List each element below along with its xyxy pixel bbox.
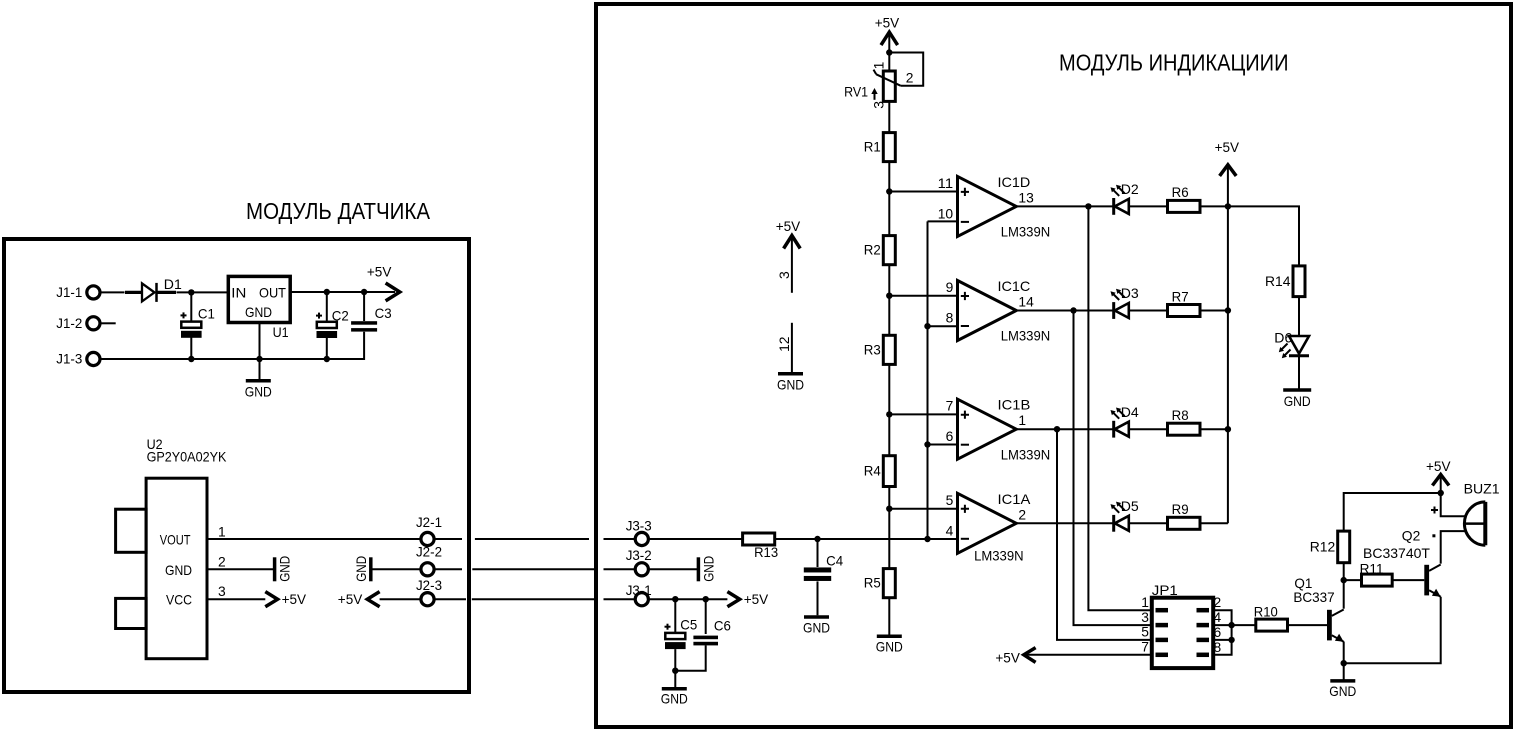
wire R6 to +5V rail (1200, 205, 1228, 207)
wire to C5 (674, 599, 676, 633)
svg-text:2: 2 (1018, 506, 1026, 522)
junction RV1 pin2 loop (886, 49, 892, 55)
junction buzzer +5V node (1438, 490, 1444, 496)
wire D1 to U1 IN (177, 291, 229, 293)
buzzer BUZ1 (1464, 480, 1500, 545)
junction D1/C1 node (188, 289, 194, 295)
capacitor C5 (electrolytic) (665, 617, 698, 650)
+5V symbol ladder top (875, 15, 900, 45)
junction tie/pin4 (1228, 622, 1234, 628)
svg-text:LM339N: LM339N (1001, 446, 1050, 462)
wire D2 row left (1016, 205, 1113, 207)
wire Q2 emitter to Q1 emitter (1344, 597, 1441, 664)
wire JP1 pins 4,6 tie (1213, 625, 1231, 640)
connector J1-1 (56, 284, 100, 300)
sensor module frame (4, 239, 469, 692)
wire U2 VOUT to J2-1 (207, 538, 420, 540)
svg-text:R10: R10 (1254, 604, 1278, 620)
ground U1 (245, 381, 272, 400)
svg-text:МОДУЛЬ ДАТЧИКА: МОДУЛЬ ДАТЧИКА (246, 198, 431, 224)
wire R11 to Q2 base (1392, 579, 1424, 581)
junction rail/C1 (188, 356, 194, 362)
svg-text:GND: GND (700, 556, 716, 582)
wire IC1C out to JP1 pin3 (1074, 311, 1152, 626)
svg-text:C4: C4 (826, 553, 843, 569)
svg-text:IC1D: IC1D (998, 174, 1031, 190)
buzzer - polarity mark (1432, 534, 1435, 537)
ground J3-2 (698, 556, 716, 582)
svg-text:R6: R6 (1172, 184, 1189, 200)
svg-text:Q2: Q2 (1402, 527, 1421, 543)
svg-text:GND: GND (661, 691, 688, 707)
wire to C4 (817, 539, 819, 567)
svg-text:GND: GND (1284, 393, 1311, 409)
potentiometer RV1 (844, 61, 914, 108)
svg-text:6: 6 (1214, 624, 1222, 640)
svg-text:C2: C2 (332, 307, 349, 323)
svg-text:GND: GND (165, 562, 192, 578)
connector J1-2 (56, 315, 100, 331)
svg-text:6: 6 (946, 428, 954, 444)
svg-text:2: 2 (1214, 594, 1222, 610)
resistor R12 (1310, 531, 1350, 563)
svg-text:J1-2: J1-2 (56, 315, 82, 331)
junction R8/rail (1225, 426, 1231, 432)
junction R2/R3 tap (886, 293, 892, 299)
svg-text:GND: GND (277, 556, 293, 582)
capacitor C1 (electrolytic) (181, 305, 216, 338)
svg-text:BC337: BC337 (1293, 589, 1335, 605)
junction C6 tap (703, 596, 709, 602)
svg-text:5: 5 (1141, 624, 1149, 640)
connector J3-1 (626, 582, 652, 606)
wire R8 to +5V rail (1200, 428, 1228, 430)
ground U2 pin2 (275, 556, 293, 582)
svg-text:+5V: +5V (1426, 458, 1451, 474)
resistor R1 (864, 133, 896, 162)
svg-text:GND: GND (803, 619, 830, 635)
svg-text:GP2Y0A02YK: GP2Y0A02YK (147, 449, 227, 465)
JP1 pin 4 stub (1197, 623, 1210, 628)
svg-text:R5: R5 (864, 575, 881, 591)
ground ladder (876, 636, 903, 654)
wire OUT to C2 (326, 292, 328, 322)
junction C5 tap (672, 596, 678, 602)
JP1 pin 1 stub (1156, 608, 1169, 613)
svg-text:+5V: +5V (995, 650, 1020, 666)
+5V symbol LM339 pin 3 (776, 218, 801, 249)
resistor R10 (1254, 604, 1288, 632)
junction R6/rail (1225, 203, 1231, 209)
connector J2-3 (416, 577, 442, 606)
svg-text:JP1: JP1 (1152, 582, 1178, 598)
+5V symbol buzzer (1426, 458, 1451, 485)
wire ground rail (100, 332, 364, 359)
wire tap to pin 11 (889, 191, 957, 193)
svg-text:4: 4 (946, 522, 954, 538)
junction Q1 col/R12/R11 (1341, 577, 1347, 583)
wire R13 to IC1A pin 4 (775, 538, 958, 540)
op-amp IC1C (958, 278, 1051, 344)
svg-text:GND: GND (876, 638, 903, 654)
wire J2-2 to ground (372, 568, 421, 570)
svg-text:RV1: RV1 (844, 84, 868, 100)
svg-text:IC1B: IC1B (998, 397, 1031, 413)
wire U1 GND pin (259, 323, 261, 380)
svg-text:J2-1: J2-1 (416, 514, 442, 530)
svg-text:14: 14 (1018, 294, 1034, 310)
resistor R14 (1265, 266, 1305, 297)
ground Q1 (1329, 681, 1356, 699)
wire R2 to R3 (888, 265, 890, 336)
wire Q1 emitter to ground (1343, 663, 1345, 680)
wire R9 to +5V rail (1200, 522, 1228, 524)
transistor Q1 BC337 (1327, 610, 1344, 642)
svg-text:R14: R14 (1265, 273, 1291, 289)
LED D2 (D2) (1111, 181, 1139, 215)
wire tap to pin 7 (889, 413, 957, 415)
wire D5 to R9 (1129, 522, 1168, 524)
wire D4 row left (1016, 428, 1113, 430)
svg-text:C1: C1 (198, 305, 215, 321)
wire IC1B out to JP1 pin5 (1057, 429, 1152, 640)
connector J3-3 (626, 518, 652, 546)
svg-text:1: 1 (1018, 412, 1026, 428)
junction R4/R5 tap (886, 506, 892, 512)
ground J2-2 (353, 556, 371, 582)
svg-text:R11: R11 (1360, 560, 1384, 576)
wire C1 to ground rail (190, 338, 192, 360)
svg-text:GND: GND (245, 304, 272, 320)
JP1 pin 3 stub (1156, 623, 1169, 628)
wire OUT to C3 (363, 292, 365, 321)
wire rail to R14 (1228, 206, 1299, 266)
buzzer + polarity mark (1431, 507, 1438, 514)
wire Q1 emitter (1343, 642, 1345, 664)
JP1 pin 8 stub (1197, 653, 1210, 658)
wire J3-3 to R13 (648, 538, 742, 540)
wire D5 row left (1016, 522, 1113, 524)
wire tie to R10 (1232, 624, 1256, 626)
wire minus input bus (927, 221, 929, 539)
LED D3 (D3) (1111, 285, 1139, 319)
+5V symbol U2 VCC (265, 591, 306, 607)
JP1 pin 7 stub (1156, 653, 1169, 658)
junction C2 tap (324, 289, 330, 295)
wire RV1 to R1 (888, 101, 890, 132)
junction rail/U1 GND (256, 356, 262, 362)
wire D3 to R7 (1129, 310, 1168, 312)
wire tap to pin 9 (889, 295, 957, 297)
svg-text:IC1C: IC1C (998, 278, 1031, 294)
LED D4 (D4) (1111, 404, 1139, 438)
svg-text:J3-3: J3-3 (626, 518, 652, 534)
svg-text:R12: R12 (1310, 538, 1336, 554)
wire +5V to buzzer + (1441, 493, 1465, 516)
svg-text:+5V: +5V (776, 218, 801, 234)
wire C2 to rail (326, 338, 328, 359)
junction bus/pin8 (924, 323, 930, 329)
wire arrow to RV1 (888, 35, 890, 71)
svg-text:МОДУЛЬ ИНДИКАЦИИИ: МОДУЛЬ ИНДИКАЦИИИ (1059, 50, 1289, 76)
JP1 pin 5 stub (1156, 638, 1169, 643)
wire C5 to ground (674, 649, 676, 689)
svg-text:D3: D3 (1121, 285, 1139, 301)
wire C6 to node (675, 645, 705, 670)
resistor R2 (864, 236, 896, 265)
op-amp IC1A (958, 491, 1031, 564)
wire J2-1 to J3-3 (434, 538, 635, 540)
wire R12 to +5V node (1344, 493, 1441, 531)
svg-text:GND: GND (245, 383, 272, 399)
junction R3/R4 tap (886, 411, 892, 417)
svg-text:1: 1 (218, 523, 226, 539)
JP1 pin 6 stub (1197, 638, 1210, 643)
transistor Q2 BC33740T (1424, 565, 1440, 597)
svg-text:J1-3: J1-3 (56, 351, 82, 367)
+5V arrow (U1 output) (367, 263, 400, 301)
svg-text:J3-1: J3-1 (626, 582, 652, 598)
wire bus to pin 6 (928, 444, 958, 446)
wire J3-2 to ground (648, 568, 697, 570)
wire R3 to R4 (888, 364, 890, 455)
wire J2-3 to +5V (380, 598, 421, 600)
regulator U1 (228, 276, 290, 340)
junction bus/pin6 (924, 441, 930, 447)
sensor U2 GP2Y0A02YK (116, 436, 227, 659)
ground C5/C6 (661, 689, 688, 707)
svg-text:LM339N: LM339N (1001, 328, 1050, 344)
svg-text:3: 3 (218, 583, 226, 599)
resistor R6 (1168, 184, 1201, 212)
svg-text:3: 3 (871, 101, 887, 109)
op-amp IC1D (958, 174, 1051, 240)
svg-text:+5V: +5V (338, 591, 363, 607)
wire +5V rail vertical (1227, 168, 1229, 524)
resistor R13 (743, 533, 779, 560)
junction D4 row bus tap (1054, 426, 1060, 432)
wire JP1 pins 2-8 tie (1213, 610, 1231, 655)
wire LM339 pin 12 (791, 323, 793, 373)
junction D3 row bus tap (1070, 307, 1076, 313)
JP1 pin 2 stub (1197, 608, 1210, 613)
svg-text:C3: C3 (375, 305, 392, 321)
svg-text:2: 2 (218, 554, 226, 570)
svg-text:4: 4 (1214, 609, 1222, 625)
connector J1-3 (56, 351, 100, 367)
svg-text:7: 7 (946, 398, 954, 414)
svg-text:U1: U1 (273, 324, 289, 340)
svg-text:3: 3 (776, 271, 792, 279)
svg-text:8: 8 (1214, 639, 1222, 655)
junction R1/R2 tap (886, 188, 892, 194)
svg-text:5: 5 (946, 492, 954, 508)
svg-text:IC1A: IC1A (998, 491, 1031, 507)
svg-text:R8: R8 (1172, 407, 1189, 423)
wire D4 to R8 (1129, 428, 1168, 430)
junction D2 row bus tap (1085, 203, 1091, 209)
wire bus to pin 10 (928, 220, 958, 222)
wire J2-3 to J3-1 (434, 598, 635, 600)
svg-text:BUZ1: BUZ1 (1464, 480, 1500, 496)
svg-text:+5V: +5V (744, 591, 769, 607)
LED D6 (1274, 330, 1309, 359)
junction bus/signal (924, 536, 930, 542)
junction C3 tap (361, 289, 367, 295)
wire bus to pin 8 (928, 325, 958, 327)
svg-text:VOUT: VOUT (160, 532, 191, 548)
resistor R5 (864, 569, 896, 598)
svg-text:IN: IN (231, 285, 246, 301)
capacitor C3 (351, 305, 392, 332)
svg-text:2: 2 (906, 70, 914, 86)
+5V symbol LED rail (1215, 139, 1240, 176)
svg-text:GND: GND (777, 377, 804, 393)
ground LM339 pin 12 (777, 374, 804, 393)
junction tie/pin6 (1228, 637, 1234, 643)
ground D6 (1283, 390, 1311, 409)
svg-text:J3-2: J3-2 (626, 547, 652, 563)
svg-text:R1: R1 (864, 139, 881, 155)
svg-text:C6: C6 (714, 617, 731, 633)
svg-text:D4: D4 (1121, 404, 1139, 420)
junction Q1 emitter node (1341, 660, 1347, 666)
capacitor C4 (804, 553, 843, 581)
wire R1 to R2 (888, 162, 890, 236)
svg-text:D1: D1 (164, 276, 182, 292)
svg-text:3: 3 (1141, 609, 1149, 625)
svg-text:10: 10 (938, 205, 954, 221)
svg-text:9: 9 (946, 279, 954, 295)
wire tap to pin 5 (889, 508, 957, 510)
junction rail/C2 (324, 356, 330, 362)
wire RV1 pin 2 loop (889, 53, 923, 86)
resistor R3 (864, 335, 896, 364)
wire Q1 collector (1343, 580, 1345, 609)
junction R7/rail (1225, 307, 1231, 313)
resistor R9 (1168, 501, 1201, 529)
wire U1 OUT to +5V (290, 291, 395, 293)
wire Q1 col to R12 (1343, 563, 1345, 580)
connector J3-2 (626, 547, 652, 576)
svg-text:LM339N: LM339N (974, 548, 1023, 564)
svg-text:+5V: +5V (875, 15, 900, 31)
svg-text:R13: R13 (754, 544, 778, 560)
wire +5V to JP1 pin7 (1024, 654, 1152, 656)
+5V symbol JP1 pin7 (995, 648, 1035, 666)
wire IC1D out to JP1 pin1 (1088, 206, 1151, 610)
svg-text:D5: D5 (1121, 498, 1139, 514)
wire J1-2 stub (100, 322, 116, 324)
ground C4 (803, 617, 830, 635)
svg-text:J2-2: J2-2 (416, 543, 442, 559)
wire Q1 col to R11 (1344, 579, 1362, 581)
wire J3-1 to +5V (648, 598, 727, 600)
connector J2 (416, 514, 442, 546)
svg-text:+5V: +5V (282, 591, 307, 607)
svg-text:BC33740T: BC33740T (1363, 545, 1430, 561)
junction C5/C6 gnd node (672, 668, 678, 674)
wire J2-2 to J3-2 (434, 568, 635, 570)
op-amp IC1B (958, 397, 1051, 463)
wire R7 to +5V rail (1200, 310, 1228, 312)
svg-text:+5V: +5V (367, 263, 392, 279)
svg-text:7: 7 (1141, 639, 1149, 655)
svg-text:J1-1: J1-1 (56, 284, 82, 300)
svg-text:GND: GND (1329, 683, 1356, 699)
+5V symbol J2-3 (338, 591, 380, 607)
wire U2 GND pin (207, 568, 275, 570)
svg-text:1: 1 (1141, 594, 1149, 610)
svg-text:11: 11 (938, 175, 954, 191)
connector JP1 (1152, 582, 1213, 668)
svg-text:J2-3: J2-3 (416, 577, 442, 593)
+5V symbol J3-1 (727, 591, 768, 607)
svg-text:R9: R9 (1172, 501, 1189, 517)
wire node to C1 (190, 292, 192, 321)
resistor R11 (1360, 560, 1393, 586)
wire J1-1 to D1 (100, 291, 125, 293)
svg-text:D2: D2 (1121, 181, 1139, 197)
svg-text:VCC: VCC (166, 591, 192, 607)
wire U2 VCC pin (207, 598, 265, 600)
svg-text:R3: R3 (864, 341, 881, 357)
capacitor C2 (electrolytic) (316, 307, 349, 338)
wire R5 to ground (888, 598, 890, 636)
wire R4 to R5 (888, 487, 890, 569)
svg-text:GND: GND (353, 556, 369, 582)
svg-text:LM339N: LM339N (1001, 224, 1050, 240)
svg-text:OUT: OUT (259, 285, 286, 301)
wire D2 to R6 (1129, 205, 1168, 207)
wire to C6 (705, 599, 707, 634)
svg-text:D6: D6 (1274, 330, 1292, 346)
wire C4 to ground (817, 581, 819, 615)
wire Q2 collector to buzzer - (1441, 531, 1465, 564)
LED D5 (D5) (1111, 498, 1139, 532)
svg-text:R4: R4 (864, 463, 881, 479)
resistor R4 (864, 456, 896, 487)
svg-text:R7: R7 (1172, 288, 1189, 304)
wire LM339 pin 3 (791, 239, 793, 293)
svg-text:13: 13 (1018, 189, 1034, 205)
wire R10 to Q1 base (1288, 624, 1328, 626)
svg-text:C5: C5 (680, 617, 697, 633)
svg-text:12: 12 (776, 336, 792, 352)
wire +5V arrow stem (1440, 478, 1442, 494)
svg-text:+5V: +5V (1215, 139, 1240, 155)
wire D3 row left (1016, 310, 1113, 312)
diode D1 (125, 276, 182, 302)
resistor R8 (1168, 407, 1201, 435)
connector J2-2 (416, 543, 442, 576)
svg-text:1: 1 (871, 61, 887, 69)
svg-text:8: 8 (946, 310, 954, 326)
wire R14 to D6 (1298, 297, 1300, 336)
svg-text:R2: R2 (864, 242, 881, 258)
resistor R7 (1168, 288, 1201, 316)
wire D6 to ground (1298, 356, 1300, 389)
junction C4 tap (814, 536, 820, 542)
indication module frame (596, 4, 1511, 727)
capacitor C6 (693, 617, 731, 645)
